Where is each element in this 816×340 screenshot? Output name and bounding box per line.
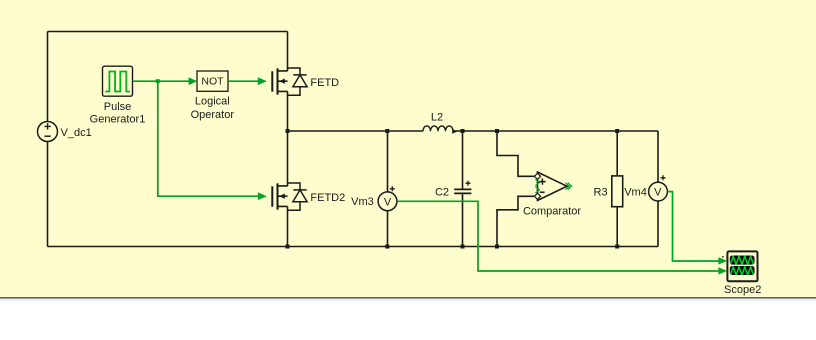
junction node comparator / bottom rail (495, 245, 499, 249)
svg-text:V: V (384, 196, 392, 208)
inductor L2 (423, 111, 453, 131)
svg-text:V: V (654, 187, 662, 199)
svg-text:L2: L2 (431, 111, 443, 123)
svg-text:FETD2: FETD2 (310, 192, 345, 204)
voltage sensor Vm3 (351, 131, 397, 247)
wire drain column FETD (287, 32, 289, 72)
svg-text:Vm4: Vm4 (624, 187, 647, 199)
wire FETD source to FETD2 drain (287, 91, 289, 186)
wire left rail lower (47, 142, 49, 247)
voltage sensor Vm4 (624, 131, 667, 247)
svg-text:Generator1: Generator1 (90, 114, 146, 126)
svg-text:NOT: NOT (201, 76, 224, 88)
capacitor C2 (435, 131, 471, 247)
svg-text:Pulse: Pulse (104, 101, 132, 113)
junction green (156, 79, 160, 83)
wire NOT output to FETD gate (228, 80, 258, 82)
junction node C2 / mid rail (461, 129, 465, 133)
junction node Vm3 / bottom rail (385, 245, 389, 249)
svg-text:Comparator: Comparator (523, 206, 581, 218)
junction node R3 / bottom rail (615, 245, 619, 249)
wire Vm3 to Scope2 input 2 (397, 201, 727, 274)
wire pulse generator output (133, 80, 189, 82)
wire bottom rail (48, 246, 659, 248)
wire FETD2 source to bottom rail (287, 206, 289, 246)
wire branch down to FETD2 gate (158, 81, 258, 196)
junction node comparator / mid rail (495, 129, 499, 133)
svg-text:Scope2: Scope2 (724, 284, 761, 296)
junction node FET leg / mid rail (286, 129, 290, 133)
svg-text:Logical: Logical (195, 96, 230, 108)
junction node Vm3 / mid rail (385, 129, 389, 133)
block NOT Logical Operator (189, 71, 235, 121)
comparator (497, 131, 581, 247)
svg-text:Vm3: Vm3 (351, 196, 374, 208)
wire mid rail left of L2 (288, 130, 424, 132)
wire left rail upper (47, 32, 49, 122)
svg-text:R3: R3 (594, 187, 608, 199)
junction node C2 / bottom rail (461, 245, 465, 249)
svg-text:V_dc1: V_dc1 (61, 127, 92, 139)
junction node R3 / mid rail (615, 129, 619, 133)
wire Vm4 to Scope2 input 1 (667, 192, 727, 265)
svg-text:FETD: FETD (310, 77, 339, 89)
transistor FETD2 (258, 183, 345, 210)
scope Scope2 (722, 251, 761, 296)
wire mid rail right of L2 with arrow (452, 129, 658, 134)
svg-text:Operator: Operator (191, 109, 235, 121)
junction node FET leg / bottom rail (286, 245, 290, 249)
resistor R3 (594, 131, 623, 247)
block Pulse Generator1 (90, 66, 146, 126)
transistor FETD (258, 68, 339, 95)
svg-text:C2: C2 (435, 187, 449, 199)
dc voltage source V_dc1 (38, 122, 92, 142)
wire top rail (48, 31, 288, 33)
